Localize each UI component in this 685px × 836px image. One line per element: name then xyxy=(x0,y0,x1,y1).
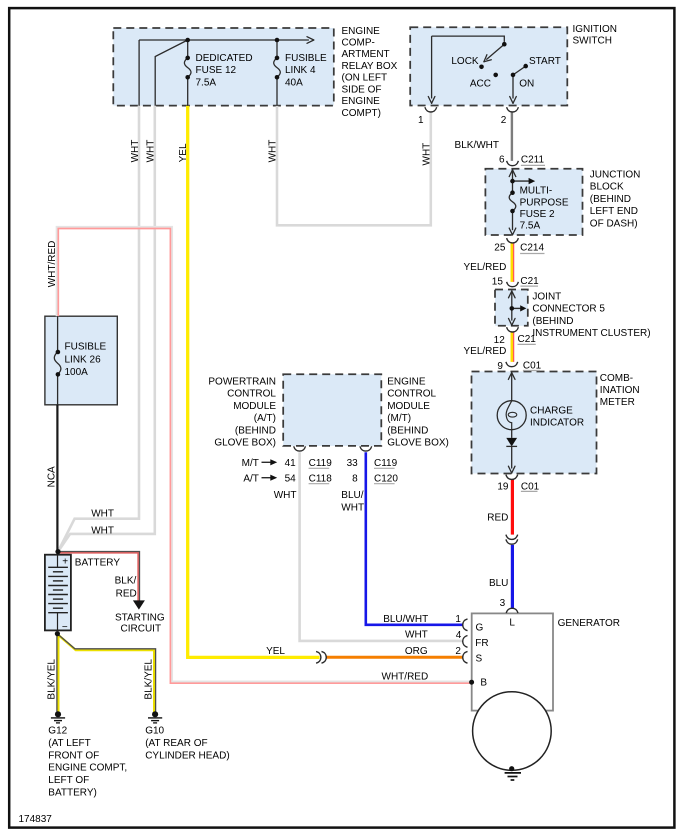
svg-text:BLOCK: BLOCK xyxy=(590,182,624,193)
svg-text:WHT: WHT xyxy=(91,509,114,520)
svg-text:COMPT): COMPT) xyxy=(342,108,381,119)
svg-text:FUSIBLE: FUSIBLE xyxy=(65,342,107,353)
svg-text:174837: 174837 xyxy=(19,814,53,825)
svg-text:7.5A: 7.5A xyxy=(196,77,217,88)
svg-text:OF DASH): OF DASH) xyxy=(590,219,638,230)
svg-text:INATION: INATION xyxy=(600,385,640,396)
svg-text:C21: C21 xyxy=(520,276,539,287)
svg-text:6: 6 xyxy=(499,155,505,166)
svg-text:BLU/: BLU/ xyxy=(341,490,363,501)
svg-text:FRONT OF: FRONT OF xyxy=(48,750,99,761)
svg-text:JOINT: JOINT xyxy=(532,291,561,302)
svg-text:(BEHIND: (BEHIND xyxy=(387,425,428,436)
svg-text:YEL: YEL xyxy=(266,646,285,657)
svg-text:COMP-: COMP- xyxy=(342,38,375,49)
svg-text:8: 8 xyxy=(352,473,358,484)
svg-text:GENERATOR: GENERATOR xyxy=(558,618,620,629)
svg-text:4: 4 xyxy=(456,630,462,641)
svg-text:(A/T): (A/T) xyxy=(254,413,276,424)
svg-text:CONNECTOR 5: CONNECTOR 5 xyxy=(532,304,605,315)
svg-text:IGNITION: IGNITION xyxy=(573,24,617,35)
svg-text:LEFT OF: LEFT OF xyxy=(48,775,89,786)
svg-text:(BEHIND: (BEHIND xyxy=(532,316,573,327)
svg-text:1: 1 xyxy=(418,115,424,126)
svg-text:GLOVE BOX): GLOVE BOX) xyxy=(387,438,449,449)
svg-text:WHT/RED: WHT/RED xyxy=(47,241,58,288)
svg-text:FUSIBLE: FUSIBLE xyxy=(285,53,327,64)
svg-text:PURPOSE: PURPOSE xyxy=(520,197,569,208)
svg-text:RED: RED xyxy=(116,589,137,600)
svg-text:WHT: WHT xyxy=(91,526,114,537)
svg-text:12: 12 xyxy=(494,335,506,346)
svg-text:YEL: YEL xyxy=(178,143,189,162)
svg-text:YEL/RED: YEL/RED xyxy=(464,262,507,273)
svg-text:METER: METER xyxy=(600,397,635,408)
svg-text:C211: C211 xyxy=(521,154,545,165)
svg-text:ENGINE COMPT,: ENGINE COMPT, xyxy=(48,763,127,774)
svg-text:C120: C120 xyxy=(374,473,398,484)
svg-text:WHT: WHT xyxy=(130,140,141,163)
svg-text:BLK/YEL: BLK/YEL xyxy=(144,659,155,700)
svg-text:COMB-: COMB- xyxy=(600,373,633,384)
svg-text:BATTERY: BATTERY xyxy=(75,558,121,569)
svg-text:L: L xyxy=(509,617,515,628)
svg-text:15: 15 xyxy=(492,276,504,287)
svg-text:C21: C21 xyxy=(518,334,537,345)
svg-text:G10: G10 xyxy=(145,726,164,737)
svg-text:DEDICATED: DEDICATED xyxy=(196,53,253,64)
svg-text:ARTMENT: ARTMENT xyxy=(342,49,390,60)
svg-text:LOCK: LOCK xyxy=(451,56,479,67)
svg-text:S: S xyxy=(476,653,483,664)
svg-text:WHT/RED: WHT/RED xyxy=(382,671,429,682)
svg-text:BATTERY): BATTERY) xyxy=(48,788,97,799)
svg-text:19: 19 xyxy=(497,482,509,493)
svg-text:CHARGE: CHARGE xyxy=(530,405,573,416)
svg-text:9: 9 xyxy=(497,361,503,372)
svg-text:C119: C119 xyxy=(374,458,398,469)
svg-text:7.5A: 7.5A xyxy=(520,221,541,232)
svg-text:FR: FR xyxy=(475,638,488,649)
svg-text:(ON LEFT: (ON LEFT xyxy=(342,73,388,84)
svg-text:ENGINE: ENGINE xyxy=(387,377,426,388)
svg-text:LEFT END: LEFT END xyxy=(590,206,638,217)
svg-text:C01: C01 xyxy=(523,360,542,371)
svg-text:CONTROL: CONTROL xyxy=(227,389,276,400)
svg-text:G12: G12 xyxy=(48,726,67,737)
svg-text:G: G xyxy=(476,623,484,634)
svg-text:C118: C118 xyxy=(309,473,333,484)
svg-text:SWITCH: SWITCH xyxy=(573,36,612,47)
svg-text:(BEHIND: (BEHIND xyxy=(235,425,276,436)
svg-text:1: 1 xyxy=(455,614,461,625)
svg-text:BLU/WHT: BLU/WHT xyxy=(383,614,428,625)
svg-text:LINK 4: LINK 4 xyxy=(285,65,316,76)
svg-text:C214: C214 xyxy=(520,242,544,253)
svg-text:(BEHIND: (BEHIND xyxy=(590,194,631,205)
svg-text:YEL/RED: YEL/RED xyxy=(464,346,507,357)
svg-text:WHT: WHT xyxy=(268,140,279,163)
svg-text:FUSE 12: FUSE 12 xyxy=(196,65,237,76)
svg-text:40A: 40A xyxy=(285,77,303,88)
svg-text:WHT: WHT xyxy=(422,143,433,166)
svg-text:(AT LEFT: (AT LEFT xyxy=(48,738,90,749)
svg-text:MULTI-: MULTI- xyxy=(520,186,553,197)
svg-text:RED: RED xyxy=(487,512,508,523)
svg-text:MODULE: MODULE xyxy=(233,401,276,412)
svg-text:NCA: NCA xyxy=(47,466,58,487)
svg-text:(M/T): (M/T) xyxy=(387,413,411,424)
svg-text:54: 54 xyxy=(285,473,297,484)
svg-text:WHT: WHT xyxy=(274,490,297,501)
svg-text:WHT: WHT xyxy=(341,502,364,513)
svg-text:+: + xyxy=(62,556,68,567)
svg-text:33: 33 xyxy=(347,458,359,469)
svg-text:ENGINE: ENGINE xyxy=(342,26,381,37)
svg-text:WHT: WHT xyxy=(405,630,428,641)
svg-text:25: 25 xyxy=(494,243,506,254)
svg-text:MODULE: MODULE xyxy=(387,401,430,412)
svg-text:2: 2 xyxy=(455,646,461,657)
svg-text:ACC: ACC xyxy=(470,78,491,89)
svg-text:B: B xyxy=(480,678,487,689)
svg-text:INDICATOR: INDICATOR xyxy=(530,418,584,429)
svg-text:GLOVE BOX): GLOVE BOX) xyxy=(214,438,276,449)
svg-text:START: START xyxy=(529,56,561,67)
svg-text:3: 3 xyxy=(500,598,506,609)
svg-text:JUNCTION: JUNCTION xyxy=(590,169,641,180)
svg-text:POWERTRAIN: POWERTRAIN xyxy=(208,377,276,388)
svg-text:ORG: ORG xyxy=(405,646,428,657)
svg-text:CIRCUIT: CIRCUIT xyxy=(121,624,162,635)
svg-text:INSTRUMENT CLUSTER): INSTRUMENT CLUSTER) xyxy=(532,328,650,339)
svg-text:LINK 26: LINK 26 xyxy=(65,354,102,365)
svg-text:A/T: A/T xyxy=(243,473,259,484)
svg-text:C01: C01 xyxy=(521,481,540,492)
svg-text:CYLINDER HEAD): CYLINDER HEAD) xyxy=(145,750,229,761)
svg-text:100A: 100A xyxy=(65,367,89,378)
svg-text:RELAY BOX: RELAY BOX xyxy=(342,61,398,72)
svg-text:2: 2 xyxy=(501,115,507,126)
svg-text:SIDE OF: SIDE OF xyxy=(342,84,382,95)
svg-text:BLU: BLU xyxy=(489,578,508,589)
svg-text:BLK/YEL: BLK/YEL xyxy=(46,659,57,700)
svg-text:FUSE 2: FUSE 2 xyxy=(520,209,555,220)
svg-text:CONTROL: CONTROL xyxy=(387,389,436,400)
svg-text:WHT: WHT xyxy=(146,140,157,163)
svg-text:BLK/: BLK/ xyxy=(115,576,137,587)
svg-text:ENGINE: ENGINE xyxy=(342,96,381,107)
svg-text:ON: ON xyxy=(519,78,534,89)
svg-text:BLK/WHT: BLK/WHT xyxy=(455,140,499,151)
svg-text:(AT REAR OF: (AT REAR OF xyxy=(145,738,207,749)
svg-text:−: − xyxy=(62,622,68,633)
svg-text:41: 41 xyxy=(285,458,297,469)
svg-text:C119: C119 xyxy=(309,458,333,469)
svg-text:M/T: M/T xyxy=(242,458,259,469)
svg-text:STARTING: STARTING xyxy=(115,612,165,623)
